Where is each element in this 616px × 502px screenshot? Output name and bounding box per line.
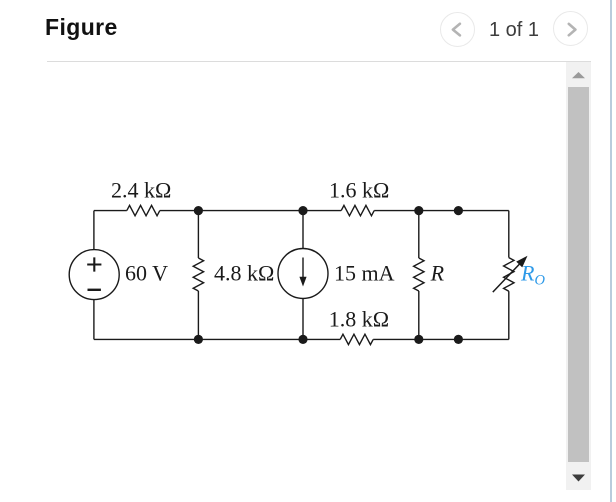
- svg-text:2.4 kΩ: 2.4 kΩ: [111, 178, 171, 203]
- node top-B: [298, 206, 307, 215]
- wire right vertical top: [508, 211, 510, 258]
- wire current source vertical bottom: [302, 299, 304, 340]
- wire right vertical bottom: [508, 291, 510, 339]
- node bottom-A: [194, 335, 203, 344]
- wire node A vertical bottom: [197, 291, 199, 339]
- svg-text:4.8 kΩ: 4.8 kΩ: [214, 261, 274, 286]
- plus sign of source: [87, 257, 101, 271]
- wire left vertical above source: [93, 211, 95, 250]
- node top-D: [454, 206, 463, 215]
- prev button (circle with left chevron): [440, 12, 475, 47]
- current source I1 circle: [278, 249, 328, 299]
- resistor 1.8k zigzag: [340, 334, 373, 344]
- minus sign of source: [88, 289, 101, 291]
- current source arrow shaft: [302, 258, 304, 280]
- node bottom-D: [454, 335, 463, 344]
- wire top: 2.4k to node A: [160, 210, 341, 212]
- voltage source V1 circle: [69, 250, 119, 300]
- resistor R 2.4k zigzag: [127, 205, 160, 215]
- resistor 4.8k vertical zigzag: [193, 258, 203, 291]
- wire current source vertical top: [302, 211, 304, 249]
- svg-text:15 mA: 15 mA: [334, 261, 395, 286]
- svg-text:1.8 kΩ: 1.8 kΩ: [329, 307, 389, 332]
- variable resistor arrow shaft: [493, 263, 521, 293]
- node bottom-C: [414, 335, 423, 344]
- wire left vertical below source: [93, 300, 95, 340]
- wire bottom: 1.8k to right corner: [373, 338, 509, 340]
- resistor Ro zigzag: [504, 258, 514, 292]
- scrollbar thumb: [568, 87, 589, 462]
- wire bottom: left segment: [94, 338, 340, 340]
- resistor 1.6k zigzag: [341, 205, 374, 215]
- variable resistor arrowhead: [516, 256, 527, 268]
- node top-C: [414, 206, 423, 215]
- wire node A vertical top: [197, 211, 199, 258]
- resistor R zigzag: [414, 258, 424, 291]
- header title "Figure": [45, 14, 118, 41]
- right blue panel border: [610, 0, 612, 502]
- scrollbar up arrow: [566, 62, 591, 87]
- svg-text:R: R: [430, 261, 445, 286]
- node bottom-B: [298, 335, 307, 344]
- svg-text:RO: RO: [520, 261, 545, 289]
- wire top: left segment to 2.4k resistor: [94, 210, 127, 212]
- current source arrowhead: [299, 277, 306, 287]
- wire resistor R vertical top: [418, 211, 420, 258]
- svg-text:1.6 kΩ: 1.6 kΩ: [329, 178, 389, 203]
- wire resistor R vertical bottom: [418, 291, 420, 339]
- header separator line: [47, 61, 591, 62]
- page counter "1 of 1": [489, 19, 539, 42]
- node top-A: [194, 206, 203, 215]
- svg-text:60 V: 60 V: [125, 261, 168, 286]
- scrollbar track: [566, 62, 591, 490]
- scrollbar down arrow: [566, 466, 591, 491]
- next button (circle with right chevron): [553, 11, 588, 46]
- wire top: 1.6k to right corner: [374, 210, 509, 212]
